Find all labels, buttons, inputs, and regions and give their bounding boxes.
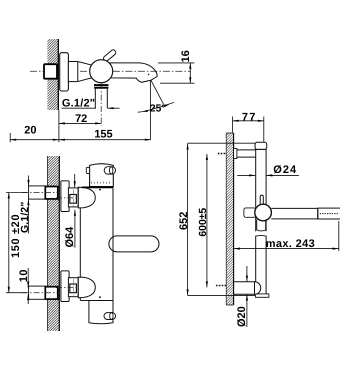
svg-text:Ø20: Ø20 xyxy=(236,306,248,327)
svg-text:20: 20 xyxy=(24,125,36,137)
svg-text:652: 652 xyxy=(178,212,190,230)
svg-text:max. 243: max. 243 xyxy=(266,238,315,250)
svg-text:600±5: 600±5 xyxy=(198,208,209,237)
svg-text:Ø24: Ø24 xyxy=(273,164,297,176)
svg-text:72: 72 xyxy=(75,113,87,125)
svg-text:155: 155 xyxy=(94,128,112,140)
svg-text:25°: 25° xyxy=(150,104,166,115)
svg-text:G.1/2": G.1/2" xyxy=(62,97,95,109)
svg-text:10: 10 xyxy=(18,269,30,282)
svg-text:G.1/2": G.1/2" xyxy=(20,201,31,233)
svg-text:Ø64: Ø64 xyxy=(64,226,76,248)
svg-text:16: 16 xyxy=(180,50,192,62)
svg-text:77: 77 xyxy=(242,112,257,124)
